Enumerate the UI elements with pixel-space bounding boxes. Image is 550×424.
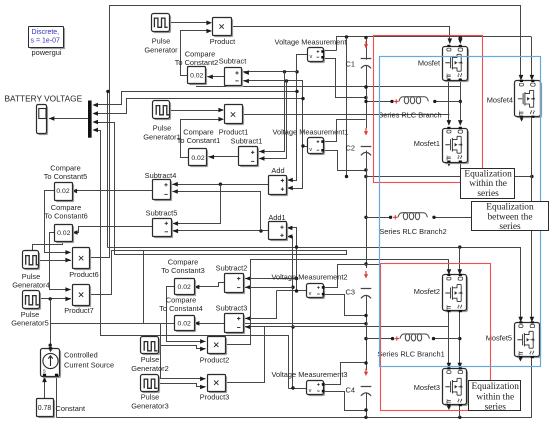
wire Mosfet2 source chain to Mosfet3 drain [459,311,461,366]
svg-text:0.02: 0.02 [178,320,191,327]
subtract block Subtract3 [226,315,245,334]
capacitor C2 plates [361,146,372,148]
capacitor C4 red current arrow [365,369,367,375]
mosfet block Mosfet4 [516,82,542,118]
product block Product1 [226,106,244,125]
svg-text:v: v [309,291,312,297]
wire Mosfet3 source down to rail [459,405,461,417]
wire Mosfet drain arrow from W2 [460,38,462,42]
svg-text:C2: C2 [346,144,355,153]
compare-to-constant value block Compare To Constant2 [189,68,207,85]
product block Product6 [74,249,91,270]
svg-text:Generator: Generator [144,46,178,55]
svg-text:series: series [477,189,499,199]
svg-text:Generator3: Generator3 [131,402,168,411]
wire Product2 out to Mosfet2 gate rail L3 [226,260,449,345]
svg-text:Add1: Add1 [268,213,285,222]
wire cell rail y=176.5 C2 bottom to Mosfet5 chain [366,176,532,178]
svg-text:Mosfet5: Mosfet5 [486,334,512,343]
wire Mosfet drain chain x=460 top to RLC node [460,80,462,124]
svg-text:series: series [499,222,521,232]
svg-text:Equalization: Equalization [464,169,512,179]
svg-text:Series RLC Branch: Series RLC Branch [378,111,441,120]
pulse generator Pulse Generator1 [154,102,171,120]
svg-text:Product7: Product7 [64,306,94,315]
wire CTC3 out to Product2 in1 [167,287,206,342]
wire VM output riser x=297 [289,55,308,181]
pulse generator Pulse Generator2 [142,338,160,355]
svg-text:Subtract1: Subtract1 [231,137,263,146]
controlled current source block [42,350,61,378]
svg-text:Subtract5: Subtract5 [146,209,178,218]
stub Mosfet4 m port [521,117,523,120]
svg-text:Series RLC Branch1: Series RLC Branch1 [377,350,444,359]
wire Mosfet5 source down to rail [531,357,533,417]
wire Pulse Generator3 to Product3 in2 [159,384,206,387]
annotation box Equalization within the series (top) [461,169,515,199]
wire mux input1 from x=297 node [95,92,297,105]
wire Mosfet4 source chain down to rail and Mosfet5 drain [531,117,533,321]
wire W1 Product6 output to Mosfet4 gate via top rail [89,6,521,258]
svg-text:C1: C1 [346,60,355,69]
mosfet block Mosfet2 [444,276,468,312]
svg-text:0.02: 0.02 [178,284,191,291]
wire cell rail y=86.4 [196,86,460,88]
svg-text:v: v [309,147,312,153]
mosfet block Mosfet3 [444,370,468,406]
svg-text:To Constant6: To Constant6 [44,212,88,221]
subtract block Subtract5 [154,220,173,238]
svg-text:Mosfet3: Mosfet3 [414,383,440,392]
wire VM3 minus to C4 bottom [324,392,365,411]
svg-text:Subtract4: Subtract4 [145,171,177,180]
svg-text:BATTERY VOLTAGE: BATTERY VOLTAGE [5,94,83,104]
wire Subtract2 plus from x=296.5 [245,278,297,280]
red plus polarity marks on RLC branches [394,99,398,103]
constant block 0.78 [38,400,55,418]
svg-text:To Constant1: To Constant1 [177,136,221,145]
wire Subtract3 minus from x=293 [245,326,293,328]
wire VM2 output riser x=296.5 [277,290,307,292]
scope block BATTERY VOLTAGE display [38,106,48,135]
wire Subtract3 out to Compare To Constant4 [194,323,224,325]
svg-text:Subtract: Subtract [219,57,247,66]
product block Product3 [209,376,227,393]
svg-text:Generator1: Generator1 [143,133,180,142]
compare-to-constant value block Compare To Constant4 [176,317,196,332]
wire Subtract2 minus from x=293 [245,287,293,289]
product block Product7 [74,286,91,307]
wire CTC6 output to Product7 in1 [50,233,71,290]
wire CCS control riser and R1 rail tap [50,299,52,347]
mux block [88,101,92,138]
svg-text:between the: between the [487,212,532,222]
wire Pulse Generator to Product in1 [170,22,211,24]
pulse generator Pulse Generator [153,15,171,33]
svg-text:Pulse: Pulse [141,355,160,364]
svg-text:Subtract2: Subtract2 [216,264,248,273]
svg-text:Voltage Measurement1: Voltage Measurement1 [272,128,348,137]
svg-text:series: series [485,402,507,412]
wire Mosfet4 drain riser from W2 [531,37,533,79]
wire VM3 plus to C4 top [324,363,365,385]
wire Pulse Generator1 to Product1 in1 [170,110,223,112]
wire Product1 out to Mosfet1 gate chain [242,114,450,116]
wire Subtract minus input from x=303 [243,80,303,82]
inductor Series RLC Branch1 coil [400,334,429,339]
wire branch to Subtract4 minus [173,192,261,231]
svg-text:C4: C4 [346,386,355,395]
wire VM minus to C1-C2 junction [323,59,365,98]
wire VM2 minus to C3 bottom [324,295,365,316]
wire Pulse Generator2 to Product2 in2 [159,346,206,349]
wire Pulse Generator5 to Product7 in2 [39,298,71,300]
svg-text:powergui: powergui [32,48,62,57]
svg-text:Generator5: Generator5 [11,319,48,328]
svg-text:Series RLC Branch2: Series RLC Branch2 [379,227,446,236]
wire bottom rail y=417.3 [57,417,532,419]
svg-text:within the: within the [476,392,514,402]
wire Subtract2 out to Compare To Constant3 [194,283,225,287]
annotation box Equalization within the series (bottom) [469,381,521,411]
svg-text:Mosfet4: Mosfet4 [487,96,513,105]
wire Subtract out to Compare To Constant2 [207,76,224,78]
wire Subtract4 out to Compare To Constant5 [72,190,153,192]
wire VM3 output riser x=293 [289,388,307,390]
svg-text:Add: Add [271,166,284,175]
wire VM1 plus to C2 top [323,120,366,142]
series RLC branch2 leads row y=217 [366,217,390,219]
wire Subtract1 plus riser x=284.5 [259,72,285,152]
voltage measurement block Voltage Measurement [309,49,325,63]
wire L1 gate rail y=247 to Mosfet5 gate [108,248,521,321]
voltage measurement block Voltage Measurement1 [309,139,325,155]
svg-text:Discrete,: Discrete, [32,29,60,36]
junction C1-C2 dot [364,85,367,88]
capacitor C2 red current arrow [365,128,367,134]
svg-text:Mosfet2: Mosfet2 [414,287,440,296]
wire CTC6 bottom stub [33,241,63,252]
wire Product7 output riser to L2 rail [90,123,347,295]
svg-text:within the: within the [469,179,507,189]
annotation box Equalization between the series [472,202,549,231]
wire CCS right port down to bottom rail [56,376,58,418]
wire Mosfet1 source down to rail [460,162,462,177]
svg-text:Product1: Product1 [219,128,249,137]
mosfet block Mosfet [444,48,469,82]
svg-text:Voltage Measurement3: Voltage Measurement3 [271,370,347,379]
svg-text:To Constant4: To Constant4 [159,304,203,313]
svg-text:Product3: Product3 [200,393,230,402]
wire Add output to Subtract4 plus [172,184,269,186]
wire Subtract3 plus riser x=277 [245,291,277,319]
blue group box between-series section [380,57,541,367]
wire L1 riser x=107.9 from mux row area down to y=247 rail [107,92,109,248]
svg-text:Mosfet: Mosfet [418,59,440,68]
voltage measurement block Voltage Measurement2 [308,285,325,299]
svg-text:Equalization: Equalization [486,203,534,213]
svg-text:To Constant3: To Constant3 [161,266,205,275]
svg-text:Pulse: Pulse [141,393,160,402]
inductor Series RLC Branch coil [399,97,428,102]
capacitor C4 plates [361,386,372,388]
pulse generator Pulse Generator4 [24,252,40,270]
stub Mosfet5 m port [520,357,522,360]
mosfet block Mosfet5 [516,324,541,358]
powergui block [30,28,65,49]
subtract block Add1 [270,223,288,241]
wire Pulse Generator4 to Product6 in2 [38,260,71,262]
svg-text:Subtract3: Subtract3 [216,304,248,313]
wire rail R1 y=324 to C3-C4 junction [50,323,366,325]
subtract block Subtract [226,69,243,87]
wire Add1 output to Subtract5 minus [173,230,269,232]
wire VM1 output riser x=303 [303,146,308,148]
svg-text:v: v [309,388,312,394]
compare-to-constant value block Compare To Constant6 [56,226,74,243]
wire mux input4 from VM3 output [95,131,289,389]
svg-text:0.02: 0.02 [191,155,204,162]
series RLC branch1 leads row y=337 [366,338,392,340]
red group box top equalization section [374,36,483,183]
svg-text:0.78: 0.78 [38,405,52,412]
compare-to-constant value block Compare To Constant1 [190,150,208,167]
svg-text:Mosfet1: Mosfet1 [414,139,440,148]
svg-text:Product: Product [210,37,235,46]
compare-to-constant value block Compare To Constant5 [56,184,74,202]
svg-text:Product6: Product6 [69,270,99,279]
capacitor C1 plates [361,58,372,60]
wire V2 riser x=346.5 from W2 down to C2 bottom rail [346,37,348,177]
svg-text:Constant: Constant [56,404,86,413]
wire Subtract plus input from x=297 [243,71,297,73]
series RLC branch leads row y=101 [366,101,391,103]
svg-text:0.02: 0.02 [56,188,69,195]
wire Product3 out to Mosfet3 gate rail [226,327,449,383]
svg-text:Generator2: Generator2 [131,364,168,373]
wire CTC4 out to Product3 in1 [161,324,206,379]
capacitor C3 plates [361,288,372,290]
product block Product [214,19,233,37]
wire W3 Product out to Mosfet gate [231,27,450,43]
capacitor C3 red current arrow [365,271,367,277]
red group box bottom equalization section [381,264,491,411]
wire Mosfet source chain x=449 top [448,80,450,124]
wire CTC1 riser to Product1 in2 [181,120,223,158]
svg-text:s: s [43,369,46,375]
svg-text:Pulse: Pulse [152,37,171,46]
subtract block Subtract2 [226,275,245,294]
stub Mosfet3 m port [448,405,450,408]
compare-to-constant value block Compare To Constant3 [176,280,196,296]
wire Subtract5 out to Compare To Constant6 [73,227,153,233]
svg-text:To Constant5: To Constant5 [44,172,88,181]
voltage measurement block Voltage Measurement3 [308,382,325,396]
svg-text:Equalization: Equalization [472,382,520,392]
pulse generator Pulse Generator5 [24,292,41,310]
svg-text:Current Source: Current Source [64,361,114,370]
wire C-line x=366 cell stack column [366,38,368,60]
svg-text:Pulse: Pulse [153,124,172,133]
wire VM2 plus to C3 top rail [324,265,381,288]
wire CTC5 output to Product6 in1 [45,191,71,253]
wire mux output to scope [49,118,88,120]
capacitor C1 red current arrow [365,41,367,47]
svg-text:0.02: 0.02 [190,73,203,80]
svg-text:s = 1e-07: s = 1e-07 [31,38,60,45]
svg-text:Voltage Measurement2: Voltage Measurement2 [271,273,347,282]
wire Constant up to CCS [44,378,46,399]
subtract block Subtract4 [154,181,172,201]
subtract block Subtract1 [240,148,259,167]
wire bottom-left frame line x=143.4 [143,250,145,323]
wire Subtract1 out to Compare To Constant1 [209,156,239,158]
svg-text:Product2: Product2 [200,356,230,365]
wire branch to Subtract5 plus [173,185,221,224]
svg-text:To Constant2: To Constant2 [175,58,219,67]
mosfet block Mosfet1 [444,130,469,164]
wire W2 battery top rail y=37 [323,50,337,52]
stub Mosfet1 m port [448,162,450,165]
inductor Series RLC Branch2 coil [398,213,427,218]
svg-text:Voltage Measurement: Voltage Measurement [275,38,347,47]
svg-text:0.02: 0.02 [57,230,70,237]
product block Product2 [209,338,227,355]
wire VM1 minus to C2 bottom [323,151,365,171]
wire Mosfet2 drain riser from L1 [458,245,461,248]
wire mux input2 from x=303 node [95,99,303,114]
subtract block Add [270,177,288,196]
svg-text:v: v [310,54,313,60]
wire Mosfet2 m chain to Mosfet3 gate [448,311,450,366]
svg-text:Controlled: Controlled [64,351,98,360]
wire CTC2 riser to Product in2 [181,31,211,76]
svg-text:Generator4: Generator4 [12,281,49,290]
wire Subtract1 minus riser x=286.5 [259,81,287,159]
pulse generator Pulse Generator3 [142,376,160,393]
svg-text:C3: C3 [346,288,355,297]
